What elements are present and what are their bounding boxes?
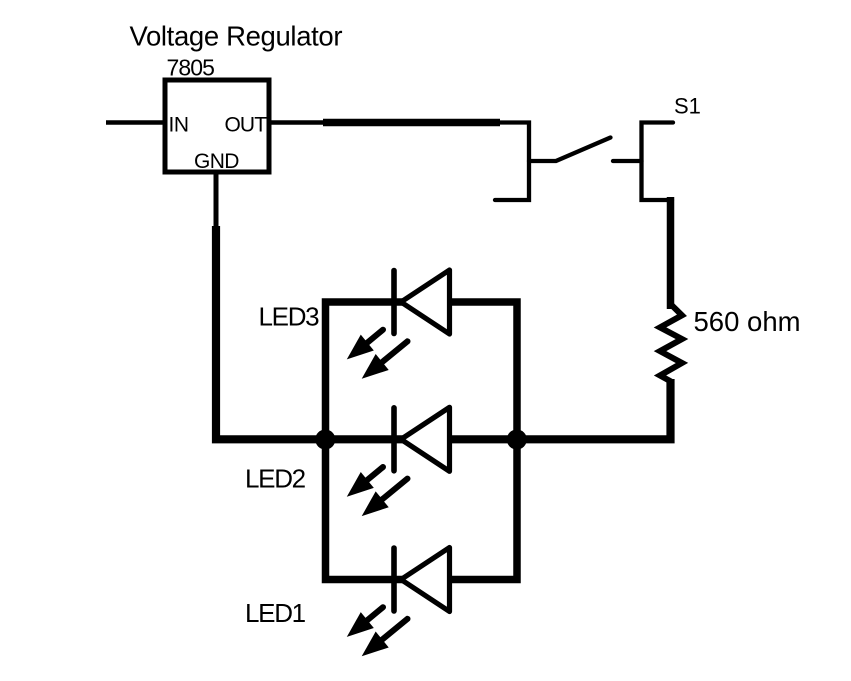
wire GND down and across to resistor — [216, 226, 671, 439]
junction node right — [507, 430, 527, 450]
svg-text:GND: GND — [194, 150, 239, 173]
svg-text:IN: IN — [169, 114, 189, 137]
svg-text:560 ohm: 560 ohm — [694, 306, 801, 337]
svg-text:7805: 7805 — [167, 55, 215, 81]
wire input to regulator — [106, 120, 167, 125]
svg-text:Voltage Regulator: Voltage Regulator — [130, 21, 343, 52]
switch S1 lever — [529, 138, 611, 162]
LED parallel rectangle rails — [326, 302, 518, 580]
svg-text:OUT: OUT — [225, 114, 268, 137]
svg-text:LED1: LED1 — [245, 598, 306, 628]
svg-text:S1: S1 — [674, 94, 701, 119]
switch S1 right stub — [613, 159, 642, 163]
LED3 symbol — [347, 270, 450, 379]
svg-text:LED3: LED3 — [259, 302, 320, 332]
resistor R1 560 ohm zigzag — [660, 305, 682, 382]
switch S1 left bracket — [495, 123, 529, 201]
wire switch to resistor — [667, 197, 675, 309]
OUT pin wire — [269, 120, 331, 125]
LED2 symbol — [347, 407, 450, 516]
regulator U1 7805 box — [165, 80, 269, 172]
switch S1 right bracket — [642, 123, 674, 201]
GND pin wire — [214, 172, 219, 230]
svg-text:LED2: LED2 — [245, 463, 306, 493]
junction node left — [315, 430, 335, 450]
wire OUT to switch — [323, 119, 500, 127]
LED1 symbol — [347, 548, 450, 657]
